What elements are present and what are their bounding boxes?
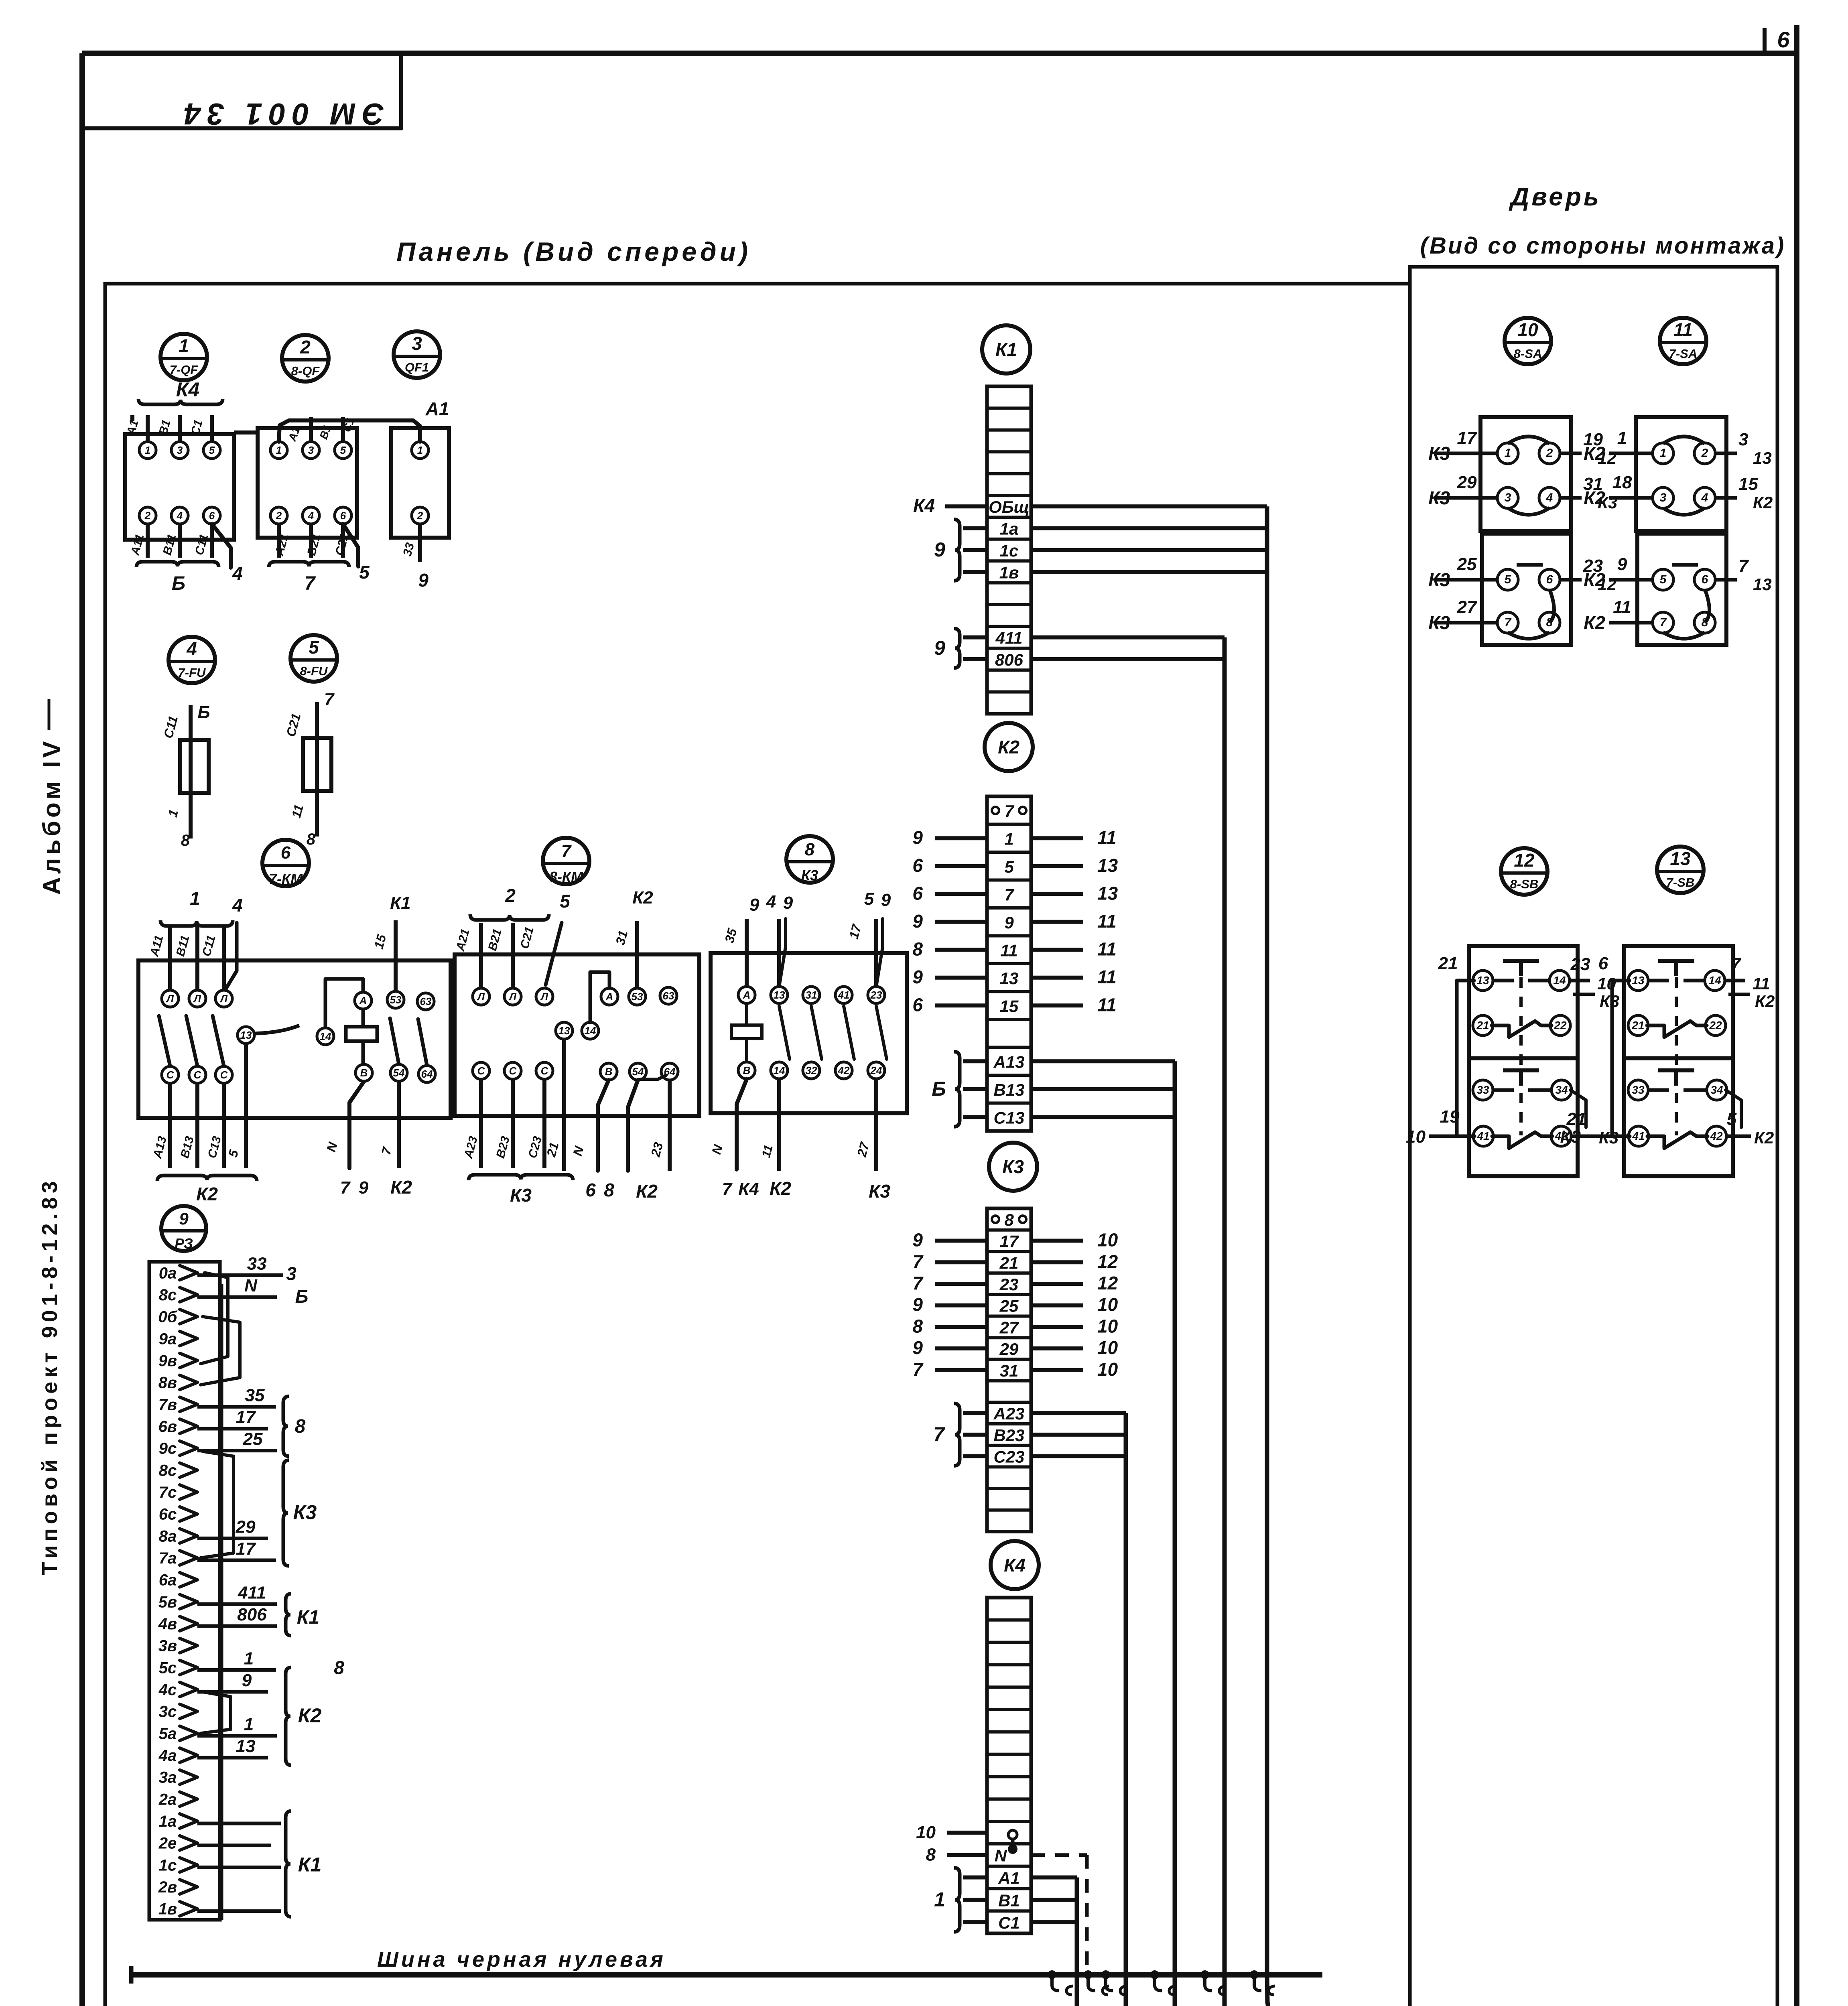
svg-text:7: 7 [324,690,335,709]
svg-text:11: 11 [1753,974,1770,993]
svg-text:9: 9 [359,1178,369,1198]
svg-text:К4: К4 [738,1179,759,1199]
svg-text:42: 42 [838,1064,850,1076]
svg-text:3: 3 [177,444,183,456]
svg-text:10: 10 [1097,1316,1118,1336]
svg-text:6: 6 [209,510,215,522]
svg-text:14: 14 [1708,974,1721,987]
svg-text:Л: Л [193,993,201,1005]
svg-text:3: 3 [1660,491,1667,504]
svg-text:34: 34 [1555,1084,1568,1096]
svg-text:1а: 1а [1000,520,1019,538]
svg-text:0а: 0а [159,1264,177,1282]
svg-text:7: 7 [561,841,572,861]
svg-text:8-FU: 8-FU [300,664,329,678]
svg-text:9: 9 [418,570,428,591]
svg-text:Л: Л [166,993,174,1005]
svg-text:Б: Б [197,703,210,722]
svg-text:А: А [359,995,367,1007]
svg-text:3а: 3а [159,1769,177,1787]
svg-text:Л: Л [477,991,485,1003]
svg-text:К2: К2 [1754,1128,1774,1147]
svg-text:6: 6 [912,883,923,904]
svg-text:6: 6 [1598,954,1608,973]
svg-text:В: В [605,1066,613,1078]
svg-text:Л: Л [540,991,548,1003]
svg-text:8в: 8в [158,1374,177,1392]
svg-text:(Вид со стороны монтажа): (Вид со стороны монтажа) [1420,233,1786,259]
svg-text:8: 8 [912,1316,923,1336]
svg-text:7: 7 [912,1251,924,1272]
svg-text:К2: К2 [632,888,653,908]
svg-text:8: 8 [307,830,316,848]
svg-text:25: 25 [999,1297,1019,1316]
svg-text:31: 31 [1000,1361,1019,1380]
svg-text:1а: 1а [159,1813,177,1830]
svg-text:К3: К3 [801,867,818,883]
svg-text:С: С [220,1069,228,1081]
svg-text:К2: К2 [1584,487,1605,508]
svg-text:С23: С23 [993,1448,1024,1466]
svg-text:1с: 1с [1000,541,1019,560]
svg-text:ОБщ: ОБщ [989,497,1030,516]
svg-text:9: 9 [1617,554,1627,574]
svg-text:8: 8 [295,1416,306,1437]
svg-text:А: А [605,991,613,1003]
svg-text:4: 4 [177,510,183,522]
svg-text:ЭМ 001 34: ЭМ 001 34 [177,97,384,131]
svg-text:6в: 6в [158,1418,177,1435]
svg-text:9: 9 [242,1671,252,1690]
svg-text:3: 3 [412,333,422,354]
svg-text:14: 14 [774,1064,785,1076]
svg-text:31: 31 [806,989,817,1001]
svg-text:РЗ: РЗ [175,1235,193,1252]
svg-text:7: 7 [1004,885,1014,904]
svg-text:17: 17 [236,1539,256,1559]
svg-text:1: 1 [190,888,200,909]
svg-text:7: 7 [1738,556,1749,576]
svg-text:4: 4 [1701,491,1708,504]
svg-text:1: 1 [244,1714,254,1734]
svg-text:6: 6 [1546,573,1553,586]
svg-text:С1: С1 [998,1913,1020,1932]
svg-text:9: 9 [912,911,923,932]
svg-text:2: 2 [417,510,423,522]
svg-text:5: 5 [560,891,571,912]
svg-text:1в: 1в [158,1900,177,1918]
svg-text:7: 7 [1004,802,1014,820]
svg-text:22: 22 [1554,1019,1567,1031]
svg-text:8: 8 [805,840,815,859]
svg-text:Л: Л [508,991,517,1003]
svg-text:22: 22 [1709,1019,1722,1031]
svg-text:411: 411 [995,629,1023,648]
svg-text:К2: К2 [1753,493,1773,512]
svg-text:15: 15 [1000,997,1019,1015]
svg-text:7: 7 [1660,616,1667,629]
svg-text:К3: К3 [1428,443,1450,464]
svg-text:7: 7 [912,1273,924,1293]
svg-text:5: 5 [359,562,370,583]
svg-text:19: 19 [1440,1107,1460,1127]
svg-text:14: 14 [320,1030,331,1042]
svg-text:11: 11 [1673,319,1693,340]
svg-text:6с: 6с [159,1506,177,1523]
svg-text:15: 15 [1738,474,1758,494]
svg-text:4: 4 [766,892,776,912]
svg-text:411: 411 [238,1583,266,1602]
svg-text:А1: А1 [998,1869,1020,1888]
svg-text:23: 23 [999,1275,1019,1294]
svg-text:3: 3 [286,1263,296,1284]
svg-text:13: 13 [240,1029,252,1041]
svg-text:3с: 3с [159,1703,177,1721]
svg-text:Л: Л [219,993,228,1005]
svg-text:4в: 4в [158,1615,177,1633]
svg-text:13: 13 [1097,855,1118,876]
svg-text:С: С [509,1065,517,1077]
svg-text:2: 2 [1546,447,1553,460]
svg-text:С: С [167,1069,175,1081]
svg-text:9: 9 [934,637,945,659]
svg-text:11: 11 [1613,597,1631,617]
svg-text:53: 53 [390,994,402,1006]
svg-text:42: 42 [1710,1130,1723,1142]
svg-text:7-КМ: 7-КМ [269,871,303,887]
svg-text:К2: К2 [770,1178,791,1199]
svg-text:13: 13 [1632,974,1645,987]
svg-text:К2: К2 [998,737,1019,757]
svg-text:В: В [360,1067,368,1079]
svg-text:11: 11 [1000,941,1018,960]
svg-text:9с: 9с [159,1440,177,1458]
svg-text:8с: 8с [159,1462,177,1479]
svg-text:6: 6 [912,855,923,876]
svg-text:К2: К2 [636,1181,658,1202]
svg-text:6: 6 [585,1180,596,1200]
svg-text:К3: К3 [1002,1156,1024,1177]
svg-text:64: 64 [421,1068,433,1080]
svg-text:13: 13 [1753,449,1772,467]
svg-text:5: 5 [1660,573,1667,586]
svg-text:С: С [477,1065,485,1077]
svg-text:1: 1 [145,444,150,456]
svg-text:7с: 7с [159,1484,177,1501]
svg-text:7-SB: 7-SB [1666,875,1695,889]
svg-text:5с: 5с [159,1659,177,1677]
svg-text:5: 5 [1727,1109,1737,1129]
svg-text:29: 29 [1457,473,1477,492]
svg-text:5а: 5а [159,1725,177,1742]
svg-text:13: 13 [236,1736,256,1756]
svg-text:5: 5 [309,637,319,658]
svg-text:32: 32 [806,1064,817,1076]
svg-text:27: 27 [999,1318,1019,1337]
svg-text:13: 13 [1000,969,1019,988]
svg-text:35: 35 [245,1385,265,1405]
svg-text:12: 12 [1514,850,1535,871]
svg-text:Б: Б [932,1078,946,1100]
svg-text:8: 8 [334,1657,344,1678]
svg-text:К3: К3 [1600,992,1619,1011]
svg-text:2а: 2а [158,1791,177,1808]
svg-text:К3: К3 [1560,1127,1581,1147]
svg-text:В: В [743,1064,751,1076]
svg-text:К4: К4 [176,378,200,401]
svg-text:В13: В13 [993,1080,1024,1099]
svg-text:63: 63 [663,990,674,1002]
svg-text:14: 14 [585,1025,596,1037]
svg-text:25: 25 [1457,554,1477,574]
svg-text:К2: К2 [1755,992,1775,1011]
svg-text:806: 806 [995,650,1024,669]
svg-text:7: 7 [912,1359,924,1380]
svg-text:7: 7 [1731,954,1742,974]
svg-text:Б: Б [172,573,185,594]
svg-text:К4: К4 [913,495,935,516]
svg-text:К2: К2 [1584,612,1605,633]
svg-text:23: 23 [870,989,882,1001]
svg-text:1: 1 [417,444,423,456]
svg-text:33: 33 [1476,1084,1489,1096]
svg-text:Типовой проект 901-8-12.83: Типовой проект 901-8-12.83 [38,1177,62,1575]
svg-text:13: 13 [1670,848,1691,869]
svg-text:12: 12 [1097,1251,1118,1272]
svg-text:6: 6 [1777,27,1790,52]
svg-text:2е: 2е [158,1835,177,1852]
svg-text:4с: 4с [158,1681,177,1699]
svg-text:10: 10 [1097,1294,1118,1315]
svg-text:54: 54 [393,1067,405,1079]
svg-text:14: 14 [1553,974,1566,987]
svg-text:К3: К3 [1428,569,1450,590]
svg-text:А: А [743,989,751,1001]
svg-text:53: 53 [632,991,643,1003]
svg-text:41: 41 [838,989,850,1001]
svg-text:34: 34 [1710,1084,1723,1096]
svg-text:К1: К1 [995,339,1017,360]
svg-text:21: 21 [1476,1019,1489,1031]
svg-text:10: 10 [1097,1230,1118,1251]
svg-text:5: 5 [1505,573,1512,586]
svg-text:21: 21 [1566,1109,1586,1129]
svg-text:4: 4 [1546,491,1553,504]
svg-text:1: 1 [1505,447,1511,460]
svg-text:8-QF: 8-QF [291,364,320,378]
svg-text:17: 17 [1457,428,1478,448]
svg-text:1: 1 [276,444,282,456]
svg-text:1: 1 [1660,447,1667,460]
svg-text:Шина черная нулевая: Шина черная нулевая [377,1947,666,1971]
svg-text:3в: 3в [158,1637,177,1655]
svg-text:7: 7 [722,1179,733,1199]
svg-text:К1: К1 [390,893,411,913]
svg-text:К3: К3 [1428,487,1450,508]
svg-text:9в: 9в [158,1352,177,1370]
svg-text:11: 11 [1097,994,1117,1015]
svg-text:8-КМ: 8-КМ [549,869,583,885]
svg-text:4: 4 [232,563,243,584]
svg-text:4: 4 [232,895,243,916]
svg-text:9: 9 [179,1209,189,1228]
svg-text:41: 41 [1632,1130,1645,1142]
svg-text:9: 9 [912,827,923,848]
svg-text:9: 9 [749,895,760,915]
svg-text:7: 7 [1505,616,1512,629]
svg-text:А23: А23 [993,1404,1024,1423]
svg-text:6а: 6а [159,1572,177,1589]
svg-text:3: 3 [1505,491,1511,504]
svg-text:9: 9 [912,1230,923,1251]
svg-text:13: 13 [1097,883,1118,904]
svg-text:3: 3 [308,444,314,456]
svg-text:806: 806 [237,1605,267,1624]
svg-text:11: 11 [1097,966,1117,987]
svg-text:13: 13 [558,1025,570,1037]
svg-text:1: 1 [1004,829,1013,848]
svg-text:7: 7 [340,1178,351,1198]
svg-text:К2: К2 [298,1704,322,1727]
svg-text:N: N [995,1846,1007,1865]
svg-text:С13: С13 [993,1108,1024,1127]
svg-text:К1: К1 [298,1853,322,1876]
svg-text:А13: А13 [993,1052,1024,1071]
svg-text:5в: 5в [158,1593,177,1611]
svg-text:1с: 1с [159,1856,177,1874]
svg-text:11: 11 [1097,911,1117,932]
svg-text:2: 2 [144,510,151,522]
svg-text:1: 1 [244,1649,254,1668]
svg-text:К1: К1 [297,1607,319,1628]
svg-text:4а: 4а [158,1747,177,1764]
svg-text:А1: А1 [425,398,449,419]
svg-text:13: 13 [1753,575,1772,594]
svg-text:3: 3 [1738,430,1748,449]
svg-text:33: 33 [247,1254,267,1273]
svg-text:К2: К2 [196,1184,218,1204]
svg-text:13: 13 [1476,974,1489,987]
svg-text:С: С [194,1069,202,1081]
svg-text:13: 13 [774,989,785,1001]
svg-text:К2: К2 [1584,443,1605,464]
svg-text:7а: 7а [159,1549,177,1567]
svg-text:К3: К3 [510,1185,532,1206]
svg-text:18: 18 [1612,473,1632,492]
svg-text:8-SB: 8-SB [1510,877,1539,891]
svg-text:К2: К2 [1584,569,1605,590]
svg-text:21: 21 [1631,1019,1644,1031]
svg-text:5: 5 [864,889,874,909]
svg-text:8-SA: 8-SA [1514,347,1542,361]
svg-text:10: 10 [916,1823,936,1842]
svg-text:6: 6 [281,843,291,863]
svg-text:9а: 9а [159,1330,177,1348]
svg-text:12: 12 [1097,1273,1118,1293]
svg-text:6: 6 [1702,573,1708,586]
svg-text:41: 41 [1476,1130,1489,1142]
svg-text:8: 8 [1004,1210,1014,1229]
svg-text:Б: Б [295,1286,309,1307]
svg-text:10: 10 [1517,319,1538,340]
svg-text:2: 2 [505,885,516,906]
svg-text:1в: 1в [999,563,1019,582]
svg-text:2: 2 [300,337,311,357]
svg-text:К3: К3 [1428,612,1450,633]
svg-text:2в: 2в [158,1878,177,1896]
svg-text:25: 25 [243,1429,263,1449]
svg-text:23: 23 [1570,954,1590,974]
svg-text:9: 9 [912,1294,923,1315]
svg-text:33: 33 [1632,1084,1645,1096]
svg-text:6: 6 [912,994,923,1015]
svg-text:С: С [541,1065,549,1077]
svg-text:5: 5 [1004,857,1014,876]
svg-text:10: 10 [1097,1337,1118,1358]
svg-text:10: 10 [1406,1127,1426,1147]
svg-text:Альбом IV: Альбом IV [38,738,66,895]
svg-text:9: 9 [783,893,793,913]
svg-text:29: 29 [236,1517,256,1537]
svg-text:11: 11 [1097,827,1117,848]
svg-text:N: N [244,1276,258,1295]
svg-text:27: 27 [1457,597,1478,617]
svg-text:8с: 8с [159,1286,177,1304]
svg-text:5: 5 [209,444,215,456]
svg-text:2: 2 [276,510,282,522]
svg-text:1: 1 [179,335,189,356]
svg-text:7-FU: 7-FU [178,666,207,680]
svg-text:6: 6 [340,510,346,522]
svg-text:21: 21 [1438,954,1458,973]
svg-text:К3: К3 [869,1181,890,1202]
svg-text:7-QF: 7-QF [170,363,199,377]
svg-text:7в: 7в [158,1396,177,1413]
svg-text:54: 54 [632,1066,644,1078]
svg-text:17: 17 [1000,1232,1019,1251]
svg-text:8: 8 [912,938,923,959]
svg-text:1: 1 [934,1888,945,1911]
svg-text:К3: К3 [293,1501,317,1523]
svg-text:7: 7 [305,573,316,594]
svg-text:1: 1 [1617,428,1627,448]
svg-text:QF1: QF1 [405,360,429,374]
svg-text:63: 63 [420,995,432,1007]
svg-text:8а: 8а [159,1527,177,1545]
svg-text:7: 7 [933,1423,945,1446]
svg-text:9: 9 [1004,913,1014,932]
svg-text:Панель (Вид спереди): Панель (Вид спереди) [396,237,751,266]
svg-text:29: 29 [999,1340,1019,1358]
svg-text:17: 17 [236,1407,256,1427]
svg-text:9: 9 [881,890,891,910]
svg-text:К4: К4 [1004,1555,1026,1576]
svg-text:24: 24 [870,1064,882,1076]
svg-text:0б: 0б [158,1308,177,1326]
svg-text:8: 8 [604,1180,614,1200]
svg-text:В23: В23 [993,1426,1024,1445]
svg-text:Дверь: Дверь [1509,182,1601,211]
svg-text:9: 9 [912,1337,923,1358]
svg-text:9: 9 [934,538,945,561]
svg-text:8: 8 [926,1845,936,1865]
svg-text:В1: В1 [998,1891,1020,1910]
svg-text:8: 8 [181,832,190,849]
svg-text:4: 4 [186,638,197,659]
svg-text:21: 21 [999,1253,1019,1272]
svg-text:К2: К2 [390,1177,412,1198]
svg-text:5: 5 [340,444,346,456]
